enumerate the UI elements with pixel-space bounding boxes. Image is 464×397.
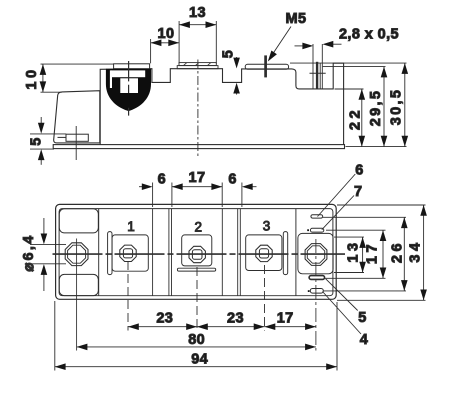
dim 17 right line <box>382 230 384 278</box>
dim 26 line <box>403 217 405 291</box>
fast-on blade <box>316 62 318 89</box>
dim 34 line <box>423 205 425 300</box>
pin slot 7 <box>310 228 323 232</box>
terminal 2 pad <box>182 235 212 266</box>
terminal 2 screw outer <box>189 246 205 262</box>
left flange bottom cutout <box>59 274 98 295</box>
dim 13 right extension lines <box>334 236 364 238</box>
terminal 1 screw outer <box>120 245 136 261</box>
dim 13 right line <box>362 237 364 272</box>
cable lug (black bell) on terminal 1 <box>106 69 151 111</box>
dim 10 left line <box>42 64 44 92</box>
terminal 3 screw inner <box>259 249 268 258</box>
svg-text:4: 4 <box>360 332 368 348</box>
svg-text:3: 3 <box>263 219 271 234</box>
svg-text:17: 17 <box>189 170 206 186</box>
left tab centerline <box>75 126 77 160</box>
left end block <box>54 91 100 143</box>
svg-text:M5: M5 <box>286 11 307 27</box>
dim 22 line <box>361 89 363 147</box>
pin slot 4 <box>310 289 323 294</box>
svg-text:26: 26 <box>389 240 405 263</box>
svg-text:80: 80 <box>188 332 205 348</box>
terminal 3 vertical centerline <box>264 265 266 331</box>
right mounting hole outer octagon <box>305 244 327 266</box>
left flange top cutout <box>59 209 98 233</box>
terminal 2 plate hatch ticks <box>184 63 187 66</box>
dim 6,4 arrows <box>43 218 45 235</box>
terminal 2 screw inner <box>192 250 202 260</box>
label 6 leader <box>318 174 356 217</box>
module right edge extension <box>336 302 338 371</box>
lug white window <box>112 70 146 77</box>
fast-on extension line right <box>321 44 323 89</box>
svg-text:6: 6 <box>158 172 166 188</box>
svg-text:13: 13 <box>346 239 362 262</box>
left terminal tab <box>66 134 88 141</box>
bottom right extension line <box>346 146 407 148</box>
fast-on extension line left <box>312 44 314 89</box>
M5 screw slot mark <box>264 55 267 77</box>
svg-text:5: 5 <box>221 48 237 58</box>
fast-on cross tick <box>310 72 326 74</box>
dim 13 extension lines <box>178 21 180 64</box>
terminal 2 plate upper <box>179 63 216 66</box>
terminal 1 clamp <box>108 232 112 275</box>
dim 30,5 extension line <box>290 62 407 64</box>
svg-text:17: 17 <box>365 241 381 264</box>
dim 6,4 extension lines <box>30 244 66 246</box>
lug white slit <box>110 70 112 88</box>
module inner outline <box>59 209 333 296</box>
baseplate <box>53 145 344 149</box>
dim 34 extension lines <box>337 204 426 206</box>
module outer outline <box>56 204 337 299</box>
dim 30,5 line <box>404 63 406 147</box>
main body outline <box>100 63 343 144</box>
dim 13 line <box>179 24 216 26</box>
right hole vertical centerline <box>315 239 317 351</box>
dim 29,5 line <box>383 67 385 147</box>
svg-text:6: 6 <box>355 163 363 179</box>
terminal 3 pad <box>246 235 282 271</box>
left tab lip <box>58 136 67 138</box>
svg-text:34: 34 <box>408 239 424 262</box>
right mounting hole inner octagon <box>307 246 324 263</box>
svg-text:23: 23 <box>156 311 173 327</box>
terminal 2 vertical centerline <box>196 267 198 331</box>
dim 80 line <box>77 346 316 348</box>
dim 17 line <box>172 186 222 188</box>
dim 5 (left) extension lines <box>30 133 66 135</box>
module left edge extension <box>54 301 56 371</box>
svg-text:23: 23 <box>227 311 244 327</box>
left flange divider <box>98 209 100 296</box>
terminal 3 clamp <box>283 232 287 275</box>
dim 17 right extension lines <box>326 229 386 231</box>
svg-text:10: 10 <box>24 66 40 89</box>
terminal 2 centerline <box>197 60 199 158</box>
terminal 3 screw outer <box>256 245 272 261</box>
dim 6 left tail <box>139 186 144 188</box>
svg-text:13: 13 <box>189 5 206 21</box>
svg-text:6: 6 <box>228 172 236 188</box>
terminal 1 screw inner <box>123 249 132 258</box>
right flange divider <box>295 209 297 296</box>
channel wall lines <box>152 209 154 296</box>
dim 94 line <box>55 366 337 368</box>
svg-text:⌀6,4: ⌀6,4 <box>21 233 37 271</box>
left mounting hole outer octagon <box>65 243 88 266</box>
left hole vertical centerline <box>76 239 78 351</box>
pin slot 6 <box>311 215 323 218</box>
dim 6/17/6 extension lines <box>152 183 154 208</box>
label 7 leader <box>322 196 354 230</box>
terminal 3 plate <box>245 64 288 69</box>
dim 10 line <box>151 42 180 44</box>
slot dot 7 <box>307 229 309 231</box>
label 5 leader <box>325 278 358 311</box>
svg-text:17: 17 <box>277 311 294 327</box>
dim 5 (recess depth) arrows <box>236 57 238 66</box>
M5 leader <box>272 27 291 56</box>
svg-text:94: 94 <box>191 352 208 368</box>
pin slot 5 <box>309 276 325 280</box>
dim 26 extension lines <box>323 216 406 218</box>
dim 6 right tail <box>252 186 257 188</box>
svg-text:2,8 x 0,5: 2,8 x 0,5 <box>339 27 399 43</box>
svg-text:1: 1 <box>127 219 135 234</box>
terminal 1 pad <box>112 235 148 271</box>
fast-on blade second line <box>319 64 321 89</box>
svg-text:2: 2 <box>194 220 202 235</box>
svg-text:7: 7 <box>354 184 362 200</box>
svg-text:30,5: 30,5 <box>389 88 405 125</box>
svg-text:10: 10 <box>158 26 175 42</box>
terminal 2 plate lower <box>177 66 218 69</box>
svg-text:5: 5 <box>358 310 366 326</box>
svg-text:29,5: 29,5 <box>368 89 384 126</box>
right mounting hole clip <box>298 233 333 273</box>
dim row 23/23/17 line <box>128 326 316 328</box>
svg-text:22: 22 <box>348 107 364 130</box>
terminal 1 centerline <box>128 61 130 116</box>
lug white square <box>120 78 138 93</box>
svg-text:5: 5 <box>29 135 45 145</box>
terminal 2 clamp bar <box>177 268 215 271</box>
dim 22 extension line <box>335 88 364 90</box>
terminal 1 vertical centerline <box>127 261 129 331</box>
left mounting hole inner octagon <box>68 245 86 263</box>
slot dot 4 <box>308 290 310 292</box>
dim 10 extension line <box>150 39 152 63</box>
dim 5 left arrows <box>40 117 42 125</box>
label 4 leader <box>323 292 362 335</box>
dim 29,5 extension line <box>323 66 386 68</box>
main horizontal centerline <box>53 253 346 255</box>
dim 10 (left height) extension lines <box>41 63 114 65</box>
terminal 1 plate <box>114 64 150 69</box>
2,8 x 0,5 leader arrows <box>295 45 304 47</box>
